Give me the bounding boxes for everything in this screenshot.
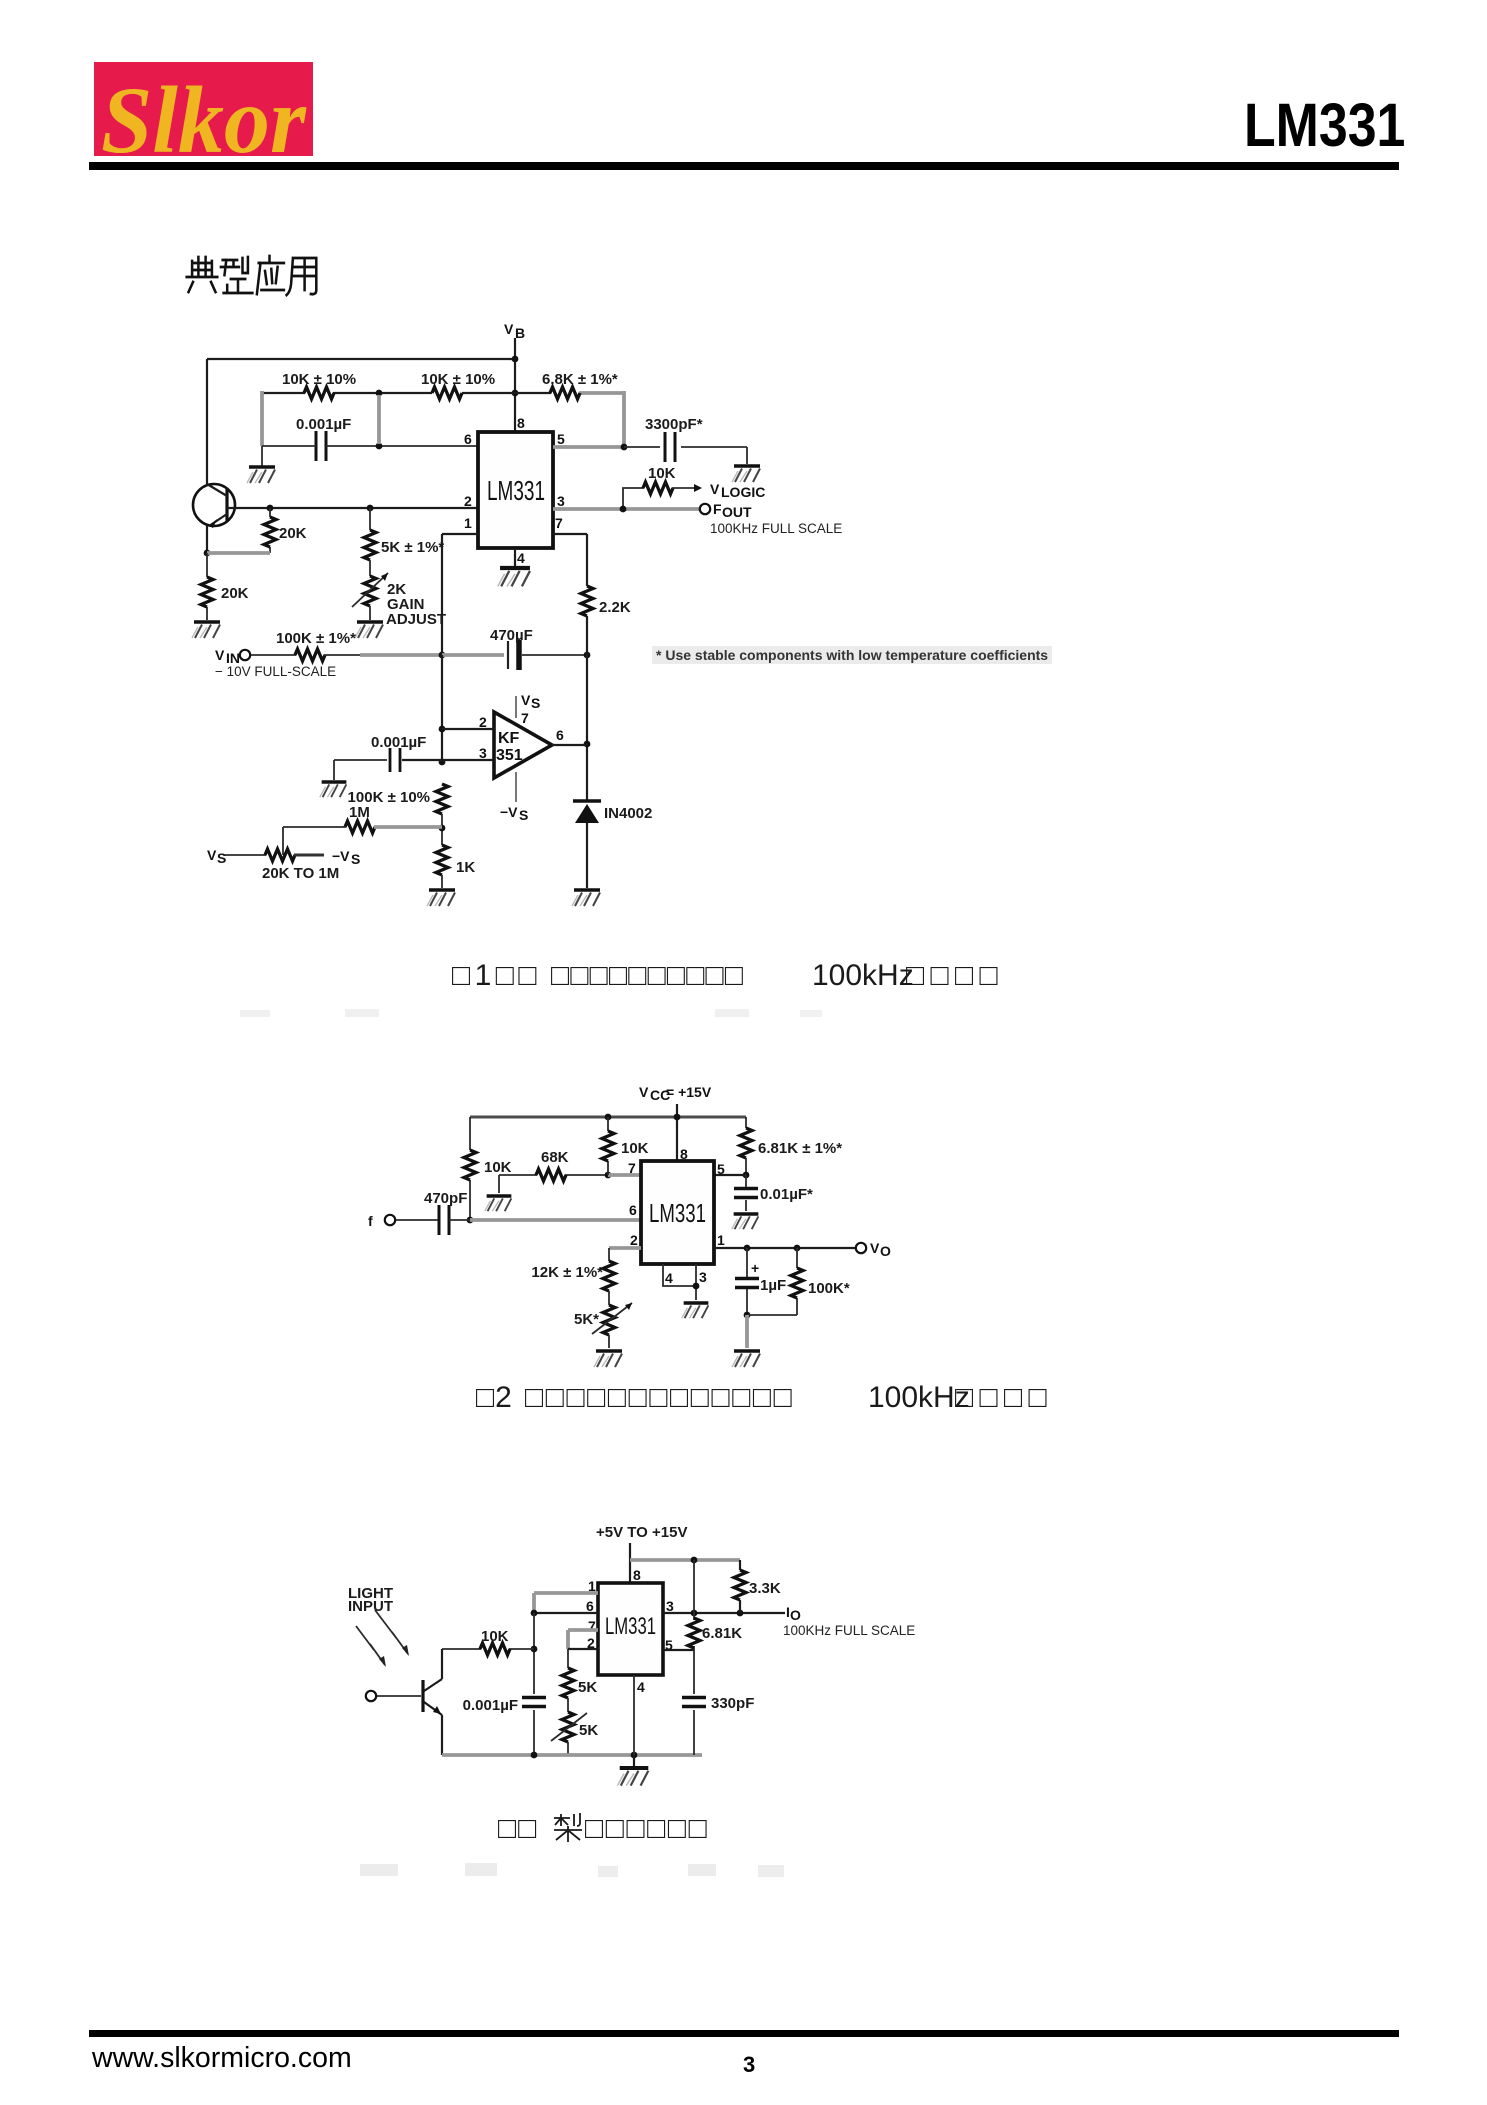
title LM331 bbox=[1244, 90, 1414, 160]
svg-text:351: 351 bbox=[496, 747, 523, 764]
heading 典型应用 (drawn) bbox=[184, 254, 319, 302]
wire second rail bbox=[262, 392, 551, 394]
wire left vertical bbox=[206, 359, 208, 484]
capacitor 0.001uF bbox=[522, 1698, 546, 1707]
svg-text:470µF: 470µF bbox=[490, 627, 533, 644]
capacitor 330pF bbox=[693, 1650, 695, 1755]
caption-3 pear char drawn bbox=[552, 1812, 584, 1844]
svg-text:10K: 10K bbox=[481, 1628, 509, 1645]
svg-text:LM331: LM331 bbox=[605, 1613, 656, 1640]
svg-text:1: 1 bbox=[717, 1232, 725, 1248]
wire base row to pin 2 bbox=[227, 507, 478, 509]
resistor R2 10K+-10% bbox=[432, 387, 462, 399]
resistor 68K bbox=[499, 1175, 608, 1193]
caption figure 1 bbox=[451, 958, 453, 960]
resistor 100K bbox=[747, 1248, 797, 1315]
svg-text:5: 5 bbox=[557, 431, 565, 447]
svg-text:OUT: OUT bbox=[722, 504, 752, 520]
svg-text:10K ± 10%: 10K ± 10% bbox=[421, 371, 495, 388]
resistor 20K lower bbox=[206, 553, 208, 620]
wire pins 4 and 3 to ground bbox=[663, 1264, 696, 1300]
node VIN input bbox=[215, 647, 240, 666]
svg-text:3: 3 bbox=[479, 745, 487, 761]
svg-text:S: S bbox=[531, 695, 540, 711]
svg-text:6: 6 bbox=[556, 727, 564, 743]
svg-text:6: 6 bbox=[464, 431, 472, 447]
svg-text:f: f bbox=[368, 1213, 373, 1229]
wire to pin 6 bbox=[470, 1218, 641, 1222]
svg-text:100KHz FULL SCALE: 100KHz FULL SCALE bbox=[710, 521, 842, 536]
ground at 0.001uF bbox=[320, 782, 347, 797]
svg-text:6.81K: 6.81K bbox=[702, 1625, 742, 1642]
op-amp output pin 6 bbox=[552, 744, 587, 746]
resistor 2.2K bbox=[581, 586, 593, 616]
wire emitter to lower rail bbox=[206, 526, 208, 553]
resistor 100K+-1% bbox=[251, 654, 296, 656]
svg-text:6.81K ± 1%*: 6.81K ± 1%* bbox=[758, 1140, 842, 1157]
resistor 6.81K bbox=[693, 1613, 695, 1650]
resistor 12K+-1% bbox=[603, 1261, 615, 1291]
capacitor 3300pF bbox=[665, 432, 675, 462]
resistor 10K bbox=[442, 1648, 534, 1650]
型 bbox=[221, 257, 253, 293]
resistor 5K bbox=[567, 1649, 569, 1668]
svg-text:3: 3 bbox=[666, 1598, 674, 1614]
svg-text:3.3K: 3.3K bbox=[749, 1580, 781, 1597]
ground under 1uF bbox=[745, 1315, 749, 1348]
svg-text:V: V bbox=[639, 1084, 649, 1100]
svg-text:4: 4 bbox=[637, 1679, 645, 1695]
svg-text:7: 7 bbox=[628, 1160, 636, 1176]
svg-text:V: V bbox=[504, 321, 514, 337]
svg-text:10K: 10K bbox=[484, 1159, 512, 1176]
svg-text:3: 3 bbox=[557, 493, 565, 509]
svg-text:2: 2 bbox=[464, 493, 472, 509]
wire pin 6 bbox=[534, 1612, 598, 1614]
svg-text:0.01µF*: 0.01µF* bbox=[760, 1186, 813, 1203]
wire supply vertical bbox=[629, 1543, 631, 1583]
svg-text:−V: −V bbox=[332, 848, 350, 864]
resistor R1 10K+-10% bbox=[304, 387, 334, 399]
ground VLOGIC bbox=[732, 466, 760, 482]
wire top rail bbox=[630, 1558, 740, 1562]
svg-text:100K ± 1%*: 100K ± 1%* bbox=[276, 630, 356, 647]
用 bbox=[287, 258, 317, 295]
potentiometer 5K bbox=[567, 1698, 569, 1712]
svg-text:− 10V FULL-SCALE: − 10V FULL-SCALE bbox=[215, 664, 336, 679]
svg-text:3300pF*: 3300pF* bbox=[645, 416, 703, 433]
ground under cap row corner bbox=[261, 446, 263, 466]
header rule bbox=[89, 162, 1399, 170]
op-amp VS pin 7 bbox=[515, 696, 517, 718]
svg-text:20K: 20K bbox=[221, 585, 249, 602]
resistor 5K+-1% bbox=[369, 508, 371, 530]
pin 4 ground bbox=[514, 548, 516, 566]
resistor 1K bbox=[436, 845, 448, 875]
resistor 20K upper bbox=[269, 508, 271, 553]
op-amp U2 KF351 bbox=[494, 712, 552, 778]
node VB label bbox=[504, 321, 525, 341]
svg-text:O: O bbox=[880, 1243, 891, 1259]
caption figure 2 bbox=[475, 1380, 477, 1382]
ground pins 4-3 bbox=[682, 1303, 709, 1318]
potentiometer 2K gain adjust bbox=[369, 560, 371, 576]
svg-text:S: S bbox=[351, 851, 360, 867]
svg-text:330pF: 330pF bbox=[711, 1695, 754, 1712]
node Vcc label bbox=[639, 1084, 712, 1103]
ground under 0.01uF bbox=[732, 1214, 759, 1229]
capacitor C1 0.001uF bbox=[316, 431, 326, 461]
wire pin 2 bbox=[609, 1246, 641, 1250]
wire pin5 row bbox=[553, 445, 624, 449]
svg-text:IN4002: IN4002 bbox=[604, 805, 652, 822]
wire top rail bbox=[470, 1115, 746, 1119]
wire pin1 corner bbox=[442, 534, 478, 655]
LM331 U1 box bbox=[641, 1161, 714, 1264]
potentiometer 5K bbox=[608, 1291, 610, 1305]
ground bbox=[633, 1755, 635, 1766]
svg-text:20K TO 1M: 20K TO 1M bbox=[262, 865, 339, 882]
LM331 U1 box bbox=[478, 432, 553, 548]
wire pin 4 bbox=[633, 1675, 635, 1755]
svg-text:3: 3 bbox=[699, 1269, 707, 1285]
svg-text:V: V bbox=[870, 1240, 880, 1256]
svg-text:6: 6 bbox=[629, 1202, 637, 1218]
svg-text:6: 6 bbox=[586, 1598, 594, 1614]
note: use stable components bbox=[652, 646, 1052, 664]
wire pin 2 bbox=[568, 1648, 598, 1650]
footer url bbox=[92, 2042, 352, 2075]
junction dots on VB line bbox=[512, 356, 519, 363]
svg-text:+5V TO +15V: +5V TO +15V bbox=[596, 1524, 687, 1541]
capacitor 1uF polarized bbox=[746, 1248, 748, 1315]
wire pin 1 bbox=[534, 1593, 598, 1613]
resistor 10K left bbox=[469, 1117, 471, 1220]
page number bbox=[743, 2052, 755, 2078]
svg-text:ADJUST: ADJUST bbox=[386, 611, 446, 628]
svg-text:V: V bbox=[215, 647, 225, 663]
wire central vertical bbox=[441, 655, 443, 762]
op-amp input wires bbox=[442, 728, 494, 730]
svg-text:KF: KF bbox=[498, 730, 520, 747]
ground under 2K pot bbox=[355, 622, 383, 638]
faint scan ghosts bbox=[360, 1864, 398, 1876]
svg-text:470pF: 470pF bbox=[424, 1190, 467, 1207]
wire pin 3 row to Io bbox=[663, 1612, 785, 1614]
wire VB vertical bbox=[514, 338, 516, 432]
diode 1N4002 bbox=[573, 799, 601, 803]
svg-text:1M: 1M bbox=[349, 804, 370, 821]
footer rule bbox=[89, 2030, 1399, 2037]
svg-text:5K: 5K bbox=[579, 1722, 598, 1739]
svg-text:10K: 10K bbox=[621, 1140, 649, 1157]
resistor R3 6.8K+-1% bbox=[550, 387, 580, 399]
svg-text:100KHz FULL SCALE: 100KHz FULL SCALE bbox=[783, 1623, 915, 1638]
wire pin 5 bbox=[663, 1649, 694, 1651]
phototransistor Q1 bbox=[421, 1680, 424, 1712]
svg-text:20K: 20K bbox=[279, 525, 307, 542]
FIGURE 2 SVG placeholder bbox=[355, 1080, 900, 1380]
svg-text:5K: 5K bbox=[578, 1679, 597, 1696]
svg-text:2.2K: 2.2K bbox=[599, 599, 631, 616]
svg-text:5K*: 5K* bbox=[574, 1311, 599, 1328]
svg-text:6.8K ± 1%*: 6.8K ± 1%* bbox=[542, 371, 618, 388]
logo Slkor bbox=[94, 62, 313, 156]
resistor 6.81K bbox=[745, 1117, 747, 1175]
svg-text:0.001µF: 0.001µF bbox=[296, 416, 351, 433]
capacitor 0.01uF bbox=[745, 1175, 747, 1211]
node VS / resistor 20K TO 1M / -VS bbox=[207, 847, 226, 866]
svg-text:LM331: LM331 bbox=[487, 475, 545, 506]
典 bbox=[187, 257, 218, 292]
wire right vertical bbox=[586, 616, 588, 800]
resistor 10K to VLOGIC bbox=[623, 488, 644, 509]
svg-text:V: V bbox=[521, 692, 531, 708]
svg-text:5: 5 bbox=[717, 1161, 725, 1177]
svg-text:7: 7 bbox=[555, 515, 563, 531]
svg-text:F: F bbox=[713, 501, 722, 517]
svg-text:10K ± 10%: 10K ± 10% bbox=[282, 371, 356, 388]
svg-text:1: 1 bbox=[464, 515, 472, 531]
ground bbox=[192, 622, 220, 638]
resistor 3.3K bbox=[739, 1560, 741, 1613]
svg-text:+: + bbox=[751, 1260, 759, 1276]
svg-text:4: 4 bbox=[665, 1270, 673, 1286]
ground under 1K bbox=[427, 890, 455, 906]
wire Vcc vertical bbox=[676, 1104, 678, 1161]
wire bottom rail bbox=[442, 1753, 702, 1757]
capacitor 470pF bbox=[439, 1205, 449, 1235]
svg-text:V: V bbox=[207, 847, 217, 863]
svg-text:100K*: 100K* bbox=[808, 1280, 850, 1297]
svg-text:1K: 1K bbox=[456, 859, 475, 876]
FIGURE 1 SVG placeholder bbox=[180, 300, 880, 940]
svg-text:= +15V: = +15V bbox=[666, 1084, 712, 1100]
svg-text:1µF: 1µF bbox=[760, 1277, 786, 1294]
svg-text:INPUT: INPUT bbox=[348, 1598, 393, 1615]
应 bbox=[257, 256, 284, 294]
input terminal bbox=[385, 1215, 395, 1225]
FIGURE 3 SVG placeholder bbox=[340, 1520, 940, 1805]
svg-text:2: 2 bbox=[630, 1232, 638, 1248]
wire pin3 row FOUT bbox=[553, 507, 699, 511]
svg-text:−V: −V bbox=[500, 804, 518, 820]
svg-text:8: 8 bbox=[517, 415, 525, 431]
wire pin 7 bbox=[568, 1630, 598, 1649]
svg-text:4: 4 bbox=[517, 550, 525, 566]
svg-text:8: 8 bbox=[633, 1567, 641, 1583]
transistor Q1 bbox=[193, 484, 235, 528]
svg-text:0.001µF: 0.001µF bbox=[371, 734, 426, 751]
svg-text:B: B bbox=[515, 325, 525, 341]
svg-text:5K ± 1%*: 5K ± 1%* bbox=[381, 539, 444, 556]
svg-text:10K: 10K bbox=[648, 465, 676, 482]
ground under diode bbox=[572, 890, 600, 906]
svg-text:V: V bbox=[710, 481, 720, 497]
svg-text:8: 8 bbox=[680, 1146, 688, 1162]
wire top rail bbox=[207, 358, 515, 360]
svg-text:0.001µF: 0.001µF bbox=[463, 1697, 518, 1714]
wire cap row to pin 6 bbox=[262, 445, 478, 447]
svg-text:7: 7 bbox=[521, 710, 529, 726]
svg-text:68K: 68K bbox=[541, 1149, 569, 1166]
svg-text:LM331: LM331 bbox=[649, 1198, 706, 1228]
svg-text:S: S bbox=[519, 807, 528, 823]
svg-text:O: O bbox=[790, 1607, 801, 1623]
resistor 10K middle bbox=[607, 1117, 609, 1175]
svg-text:S: S bbox=[217, 850, 226, 866]
svg-text:LOGIC: LOGIC bbox=[721, 484, 765, 500]
ground at 68K left bbox=[485, 1196, 512, 1211]
wire pin 1 row to Vo bbox=[714, 1247, 856, 1249]
ground under 5K pot bbox=[594, 1351, 622, 1367]
LM331 U1 box bbox=[598, 1583, 663, 1675]
wire pin 5 bbox=[714, 1174, 746, 1176]
capacitor 0.001uF lower bbox=[390, 748, 400, 772]
junction bbox=[376, 443, 383, 450]
svg-text:12K ± 1%*: 12K ± 1%* bbox=[531, 1264, 603, 1281]
svg-text:2: 2 bbox=[479, 714, 487, 730]
wire left vertical with 0.001uF bbox=[533, 1613, 535, 1755]
op-amp -VS bbox=[515, 772, 517, 802]
wire pin7 to 2.2K bbox=[553, 534, 587, 586]
caption figure 3 bbox=[497, 1811, 499, 1813]
wire mid vertical bbox=[693, 1560, 695, 1613]
capacitor 470uF bbox=[442, 653, 504, 657]
